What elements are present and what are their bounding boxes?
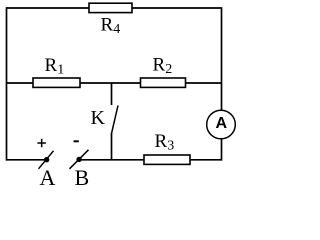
wire bottom left to terminal A	[7, 159, 46, 161]
resistor R3	[144, 131, 190, 164]
resistor R2	[141, 55, 186, 88]
svg-text:B: B	[75, 165, 90, 189]
resistor R4	[89, 3, 132, 37]
terminal B	[70, 141, 90, 190]
wire left	[6, 7, 8, 160]
wire middle row	[7, 82, 222, 84]
wire top	[7, 7, 222, 9]
svg-text:K: K	[91, 107, 106, 129]
resistor R1	[33, 55, 80, 87]
svg-text:A: A	[216, 115, 228, 132]
wire switch lower	[111, 133, 113, 160]
switch K	[91, 106, 119, 134]
wire switch upper drop	[111, 83, 113, 105]
svg-text:A: A	[40, 165, 56, 189]
ammeter A	[207, 110, 236, 139]
terminal A	[37, 139, 55, 190]
wire bottom from terminal B to right	[80, 159, 222, 161]
wire right	[221, 7, 223, 160]
